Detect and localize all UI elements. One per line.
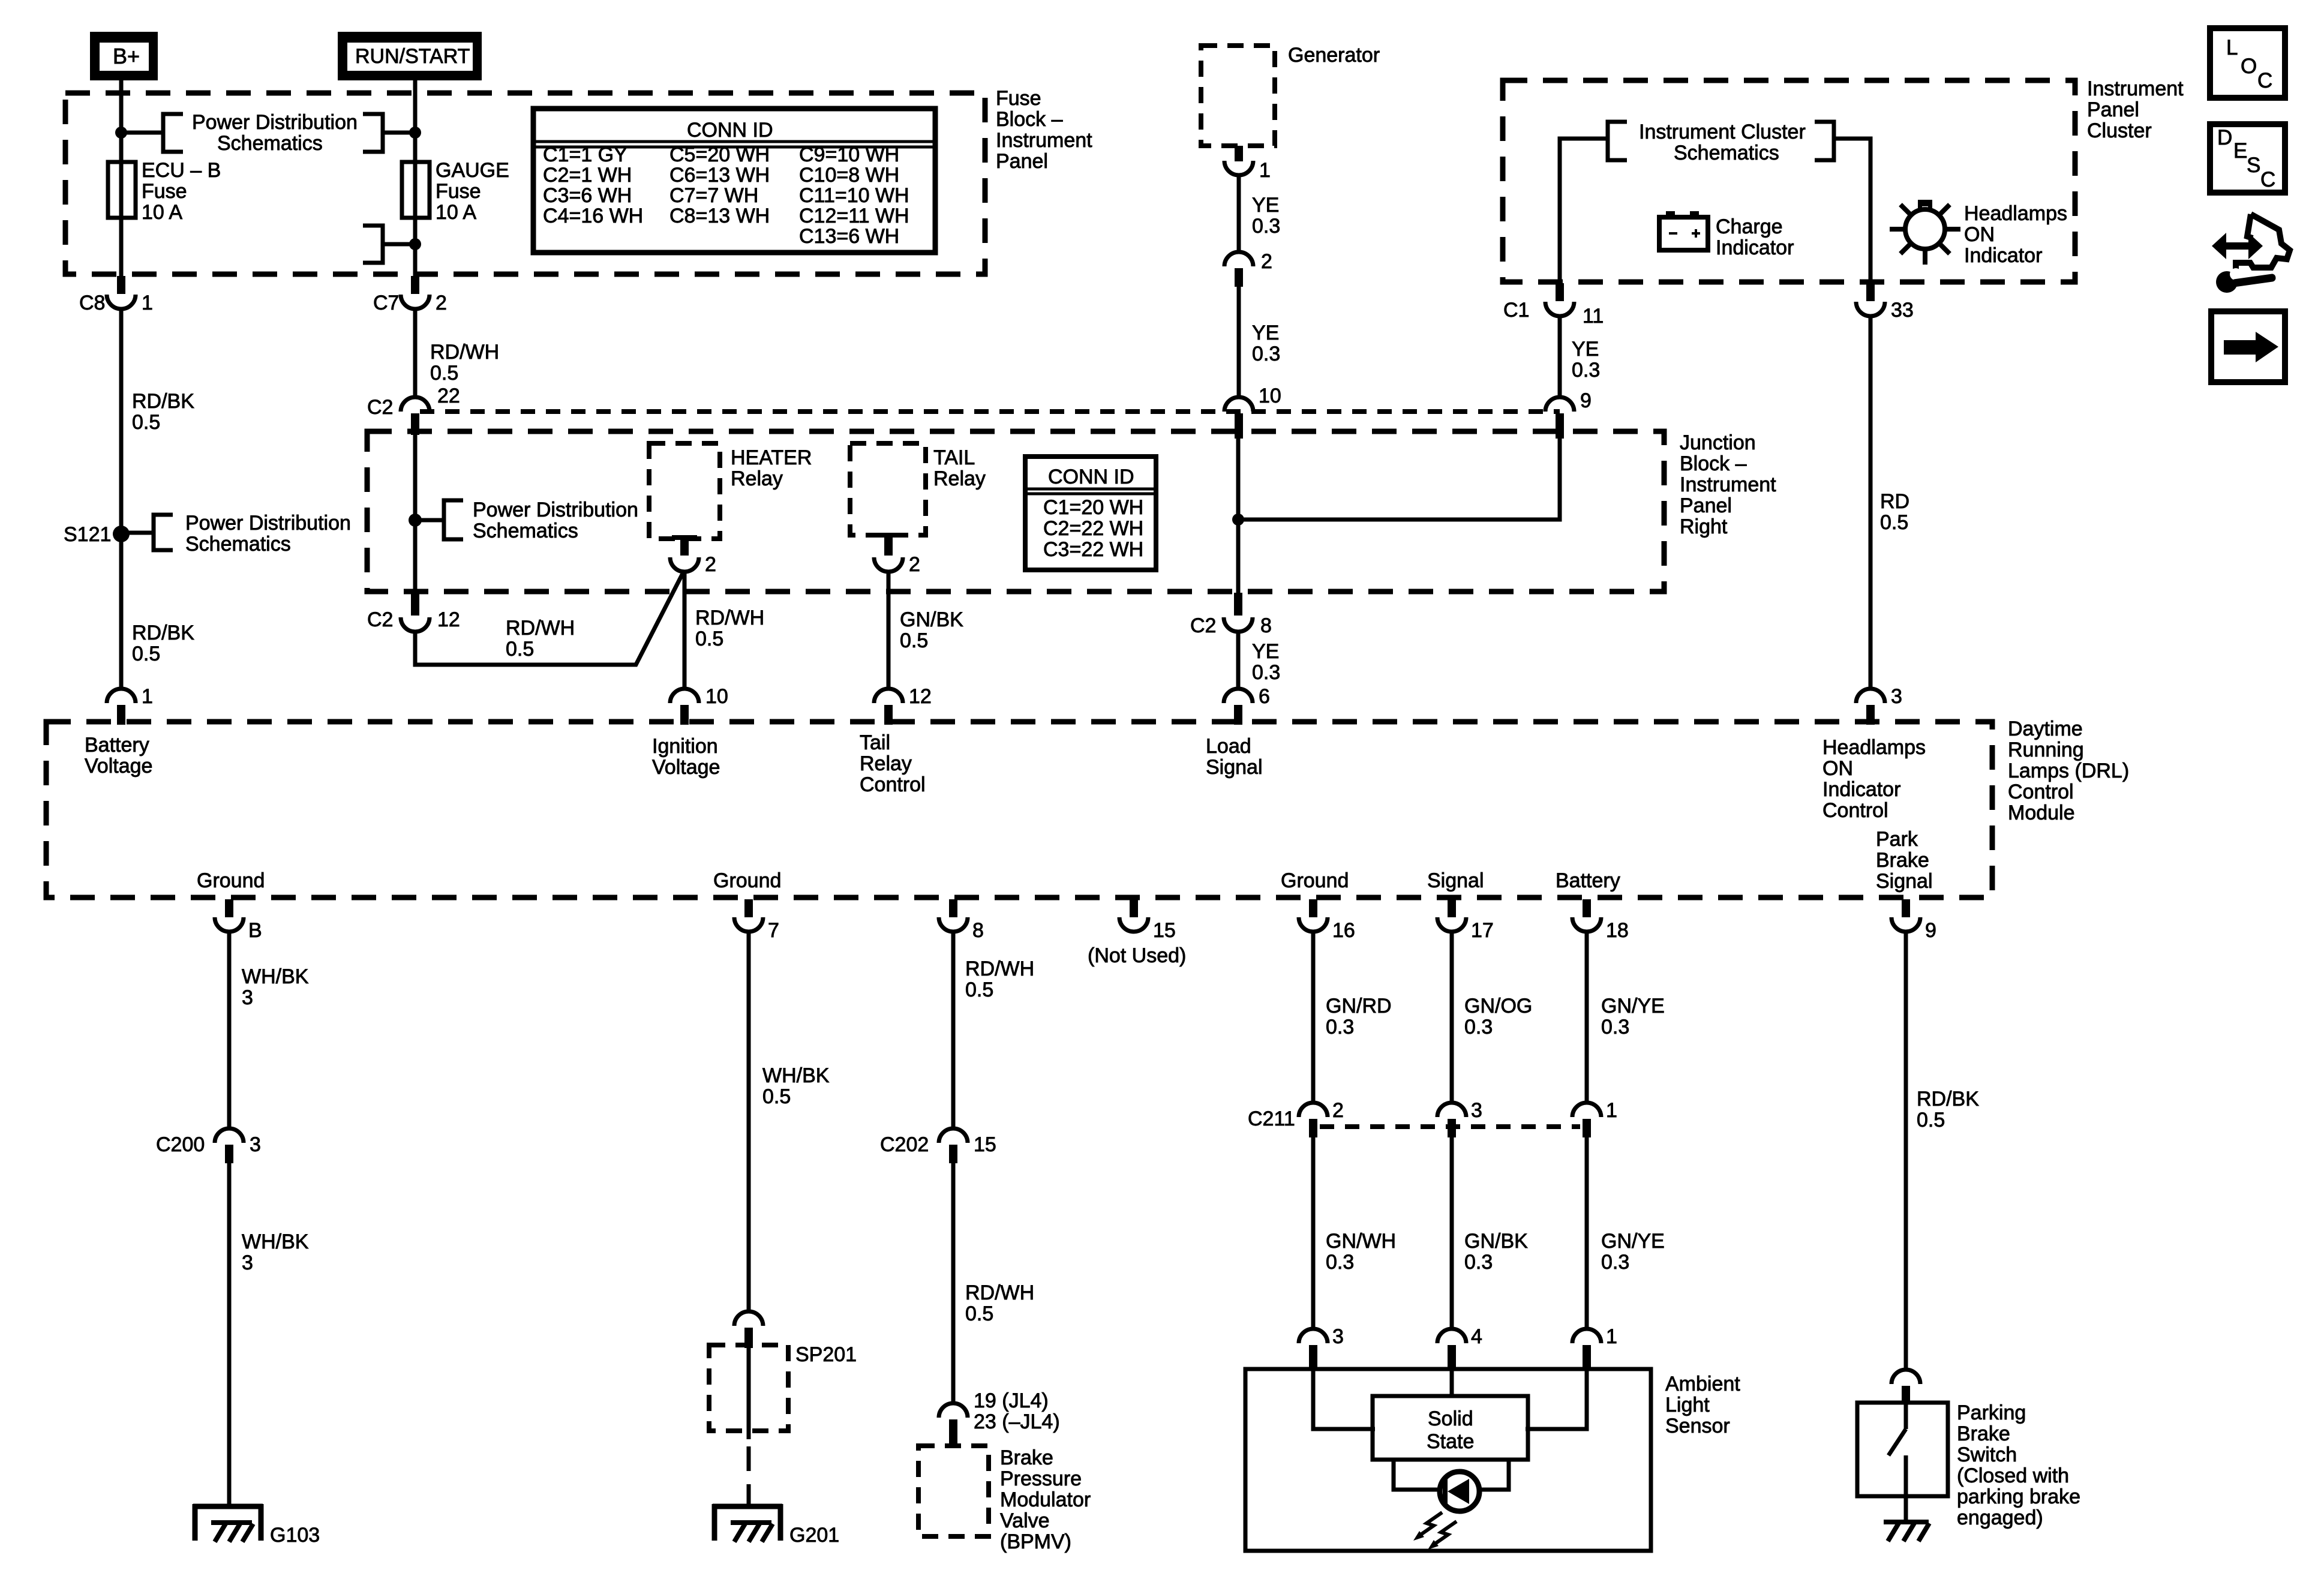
node junction dot S in block [409, 514, 422, 527]
ground G103 [193, 1504, 320, 1547]
svg-text:Instrument: Instrument [1680, 473, 1776, 496]
svg-text:Schematics: Schematics [217, 132, 323, 155]
svg-text:WH/BK: WH/BK [242, 1230, 309, 1253]
label Instrument Panel Cluster [2087, 77, 2184, 142]
label RD/BK 0.5 upper [132, 390, 194, 434]
svg-text:Brake: Brake [1957, 1422, 2010, 1445]
svg-text:C3=22 WH: C3=22 WH [1043, 538, 1143, 561]
tail relay pin 2 connector [874, 533, 920, 576]
svg-text:C7: C7 [373, 292, 399, 314]
wire RUN/START to C7 [413, 80, 418, 280]
svg-text:C5=20 WH: C5=20 WH [669, 143, 770, 166]
table CONN ID fuse block [533, 109, 935, 253]
svg-text:Sensor: Sensor [1665, 1415, 1730, 1437]
svg-text:O: O [2241, 55, 2257, 78]
label Headlamps ON Indicator Control [1822, 736, 1926, 822]
heater relay pin 2 connector [670, 535, 716, 576]
node RUN/START [338, 32, 482, 80]
wire dotted connector line [420, 409, 1560, 414]
node S121 splice [64, 523, 130, 546]
wire C211-1 to sensor 1 [1585, 1137, 1589, 1329]
svg-text:GN/WH: GN/WH [1326, 1230, 1396, 1253]
svg-text:WH/BK: WH/BK [242, 965, 309, 988]
wire connector 2 to connector 10 [1237, 287, 1241, 398]
svg-text:0.3: 0.3 [1464, 1251, 1493, 1274]
svg-text:C2=1 WH: C2=1 WH [543, 164, 632, 187]
connector pin 18 [1572, 899, 1629, 942]
icon arrow box [2211, 311, 2285, 382]
svg-text:(Not Used): (Not Used) [1088, 944, 1186, 967]
svg-text:Generator: Generator [1288, 44, 1380, 67]
wire C8 down left column [119, 309, 124, 689]
headlamps ON indicator bulb icon [1890, 200, 1960, 265]
bracket lower to gauge wire [363, 226, 383, 263]
svg-text:GN/YE: GN/YE [1601, 995, 1665, 1017]
svg-text:3: 3 [1471, 1099, 1482, 1122]
label Parking Brake Switch [1957, 1401, 2080, 1529]
svg-text:Fuse: Fuse [996, 87, 1041, 110]
svg-text:C202: C202 [880, 1133, 929, 1156]
label Battery Voltage [85, 734, 152, 778]
label RD/WH 0.5 ignition wire [695, 607, 764, 650]
svg-text:9: 9 [1580, 389, 1592, 412]
label GN/YE 0.3 upper [1601, 995, 1665, 1038]
svg-text:(Closed with: (Closed with [1957, 1464, 2069, 1487]
wire C202 to BPMV connector [951, 1163, 956, 1404]
splice SP201 dashed box [709, 1345, 788, 1431]
svg-text:7: 7 [768, 919, 779, 942]
svg-text:(BPMV): (BPMV) [1000, 1530, 1071, 1553]
svg-text:YE: YE [1252, 194, 1279, 217]
svg-text:Battery: Battery [85, 734, 149, 757]
svg-text:1: 1 [1606, 1325, 1617, 1348]
relay TAIL dashed box [850, 443, 926, 535]
svg-text:Indicator: Indicator [1716, 236, 1794, 259]
connector pin 10 ignition [670, 685, 728, 725]
label RD/WH 0.5 lower bottom [965, 1281, 1034, 1325]
svg-text:C1: C1 [1503, 299, 1529, 322]
svg-text:18: 18 [1606, 919, 1629, 942]
svg-text:Valve: Valve [1000, 1509, 1050, 1532]
svg-text:Brake: Brake [1000, 1446, 1053, 1469]
svg-text:0.5: 0.5 [965, 978, 993, 1001]
wire junction block vertical x692 [413, 433, 418, 595]
svg-text:RD/BK: RD/BK [132, 390, 194, 413]
instrument panel cluster dashed box [1503, 80, 2075, 282]
svg-text:SP201: SP201 [795, 1343, 857, 1366]
svg-text:9: 9 [1925, 919, 1936, 942]
connector pin 16 [1299, 899, 1355, 942]
svg-text:Control: Control [860, 773, 926, 796]
label Power Distribution Schematics block [473, 499, 638, 542]
svg-text:C8: C8 [79, 292, 105, 314]
svg-text:0.5: 0.5 [695, 628, 723, 650]
svg-text:Block –: Block – [1680, 452, 1747, 475]
svg-text:RD: RD [1880, 490, 1909, 513]
svg-text:Headlamps: Headlamps [1964, 202, 2067, 225]
svg-text:Switch: Switch [1957, 1443, 2017, 1466]
svg-text:Right: Right [1680, 515, 1728, 538]
label RD/WH 0.5 bent wire [506, 617, 575, 661]
connector sensor pin 3 [1299, 1325, 1344, 1369]
label GAUGE Fuse 10 A [436, 159, 509, 224]
connector sensor pin 1 [1572, 1325, 1617, 1369]
svg-text:Control: Control [1822, 799, 1888, 822]
svg-text:Brake: Brake [1876, 849, 1929, 872]
icon vehicle head with arrow [2212, 214, 2290, 271]
svg-text:C2=22 WH: C2=22 WH [1043, 517, 1143, 540]
wire 16 to C211-2 [1311, 932, 1316, 1103]
svg-text:YE: YE [1252, 640, 1279, 663]
svg-text:C4=16 WH: C4=16 WH [543, 205, 643, 227]
generator dashed box [1201, 46, 1275, 146]
connector pin 9 park brake [1891, 899, 1936, 942]
connector pin 10 junction [1224, 385, 1281, 439]
svg-text:Voltage: Voltage [652, 756, 720, 779]
svg-text:0.3: 0.3 [1572, 359, 1600, 382]
svg-text:Daytime: Daytime [2008, 718, 2083, 740]
svg-text:C1=20 WH: C1=20 WH [1043, 496, 1143, 519]
label Fuse Block - Instrument Panel [996, 87, 1092, 173]
connector pin 6 load signal [1224, 685, 1270, 725]
connector C211 pin 2 [1248, 1099, 1344, 1137]
svg-text:1: 1 [1606, 1099, 1617, 1122]
node B+ [90, 32, 158, 80]
svg-text:12: 12 [437, 608, 460, 631]
label WH/BK 0.5 [762, 1064, 830, 1108]
icon wrench [2216, 268, 2276, 293]
wire C211-3 to sensor 4 [1450, 1137, 1454, 1329]
svg-text:17: 17 [1471, 919, 1494, 942]
svg-text:S: S [2247, 154, 2260, 177]
svg-text:10 A: 10 A [142, 201, 182, 224]
svg-text:2: 2 [1261, 250, 1272, 273]
connector C2 pin 12 [367, 593, 460, 632]
label Solid State [1427, 1407, 1474, 1453]
node junction dot load [1232, 514, 1244, 526]
svg-text:0.3: 0.3 [1464, 1016, 1493, 1038]
icon LOC box [2210, 28, 2285, 98]
bracket S121 Power Distribution [154, 515, 173, 550]
svg-text:Control: Control [2008, 781, 2074, 803]
label Park Brake Signal [1876, 828, 1933, 893]
svg-text:1: 1 [1259, 159, 1271, 182]
label GN/RD 0.3 [1326, 995, 1392, 1038]
svg-text:Fuse: Fuse [142, 180, 187, 203]
connector C1 pin 11 [1503, 283, 1604, 328]
bracket Instrument Cluster Schematics right [1815, 122, 1834, 160]
wire generator to connector 2 [1237, 175, 1241, 252]
svg-text:15: 15 [1153, 919, 1176, 942]
solid state box [1373, 1396, 1528, 1460]
icon DESC box [2210, 124, 2285, 193]
wire to bracket in block [415, 518, 444, 523]
svg-text:0.5: 0.5 [762, 1085, 791, 1108]
svg-text:G201: G201 [789, 1524, 839, 1547]
svg-text:RUN/START: RUN/START [355, 45, 470, 68]
svg-text:Ground: Ground [197, 869, 265, 892]
svg-text:Junction: Junction [1680, 431, 1756, 454]
svg-text:2: 2 [705, 553, 716, 576]
svg-text:HEATER: HEATER [731, 446, 812, 469]
generator pin 1 connector [1224, 146, 1271, 182]
svg-text:ON: ON [1822, 757, 1853, 780]
svg-text:0.5: 0.5 [132, 643, 160, 665]
svg-text:State: State [1427, 1430, 1474, 1453]
label YE 0.3 cluster [1572, 338, 1600, 382]
svg-text:8: 8 [1260, 614, 1272, 637]
svg-text:GN/YE: GN/YE [1601, 1230, 1665, 1253]
ground park brake [1884, 1522, 1929, 1541]
label Ignition Voltage [652, 735, 720, 779]
svg-text:Module: Module [2008, 801, 2075, 824]
connector sensor pin 4 [1437, 1325, 1482, 1369]
wire sensor 1 internal [1526, 1369, 1587, 1429]
wire 33 to connector 3 [1869, 316, 1873, 689]
svg-text:Schematics: Schematics [1674, 142, 1779, 164]
park brake switch S1 box [1857, 1403, 1948, 1496]
svg-text:C13=6 WH: C13=6 WH [799, 225, 899, 248]
label GN/BK 0.5 [900, 608, 963, 652]
wire C200 to G103 [227, 1163, 232, 1506]
svg-text:Fuse: Fuse [436, 180, 481, 203]
svg-text:0.5: 0.5 [506, 638, 534, 661]
svg-text:C11=10 WH: C11=10 WH [799, 184, 909, 207]
wire C211-2 to sensor 3 [1311, 1137, 1316, 1329]
svg-text:C: C [2257, 69, 2272, 92]
svg-text:22: 22 [437, 385, 460, 407]
svg-text:Signal: Signal [1876, 870, 1933, 893]
svg-text:YE: YE [1572, 338, 1599, 361]
label Daytime Running Lamps DRL Control Module [2008, 718, 2129, 824]
svg-text:Signal: Signal [1427, 869, 1484, 892]
svg-text:CONN ID: CONN ID [687, 119, 773, 142]
label GN/YE 0.3 lower [1601, 1230, 1665, 1274]
svg-text:RD/WH: RD/WH [965, 1281, 1034, 1304]
table CONN ID junction block [1025, 457, 1156, 570]
svg-text:Ignition: Ignition [652, 735, 718, 758]
svg-text:B+: B+ [113, 44, 140, 68]
label RD/BK 0.5 lower [132, 622, 194, 665]
svg-text:C2: C2 [367, 608, 393, 631]
node junction dot gauge lower [409, 238, 421, 250]
connector C2 pin 22 [367, 385, 460, 435]
svg-text:Panel: Panel [1680, 494, 1732, 517]
label Brake Pressure Modulator Valve BPMV [1000, 1446, 1091, 1553]
svg-text:10: 10 [1259, 385, 1281, 407]
label Instrument Cluster Schematics [1639, 121, 1806, 164]
charge indicator battery icon [1659, 211, 1708, 250]
wire C2-12 bent to heater pin [415, 571, 684, 665]
photodiode bracket [1394, 1460, 1440, 1490]
svg-text:GN/BK: GN/BK [1464, 1230, 1528, 1253]
label YE 0.3 top [1252, 194, 1280, 238]
wire C2-8 to connector 6 [1236, 632, 1241, 689]
svg-text:C8=13 WH: C8=13 WH [669, 205, 770, 227]
svg-text:0.3: 0.3 [1326, 1251, 1354, 1274]
label YE 0.3 mid [1252, 322, 1280, 365]
connector pin 2 generator [1224, 250, 1272, 287]
svg-text:D: D [2217, 126, 2232, 149]
svg-text:0.3: 0.3 [1252, 343, 1280, 365]
svg-text:G103: G103 [270, 1524, 320, 1547]
wire cluster left branch [1560, 139, 1608, 284]
svg-text:RD/WH: RD/WH [965, 957, 1034, 980]
photodiode D1 [1440, 1472, 1479, 1511]
wire B to C200 [227, 932, 232, 1129]
wire RD/WH C7 to C2-22 [413, 309, 418, 398]
relay HEATER dashed box [649, 443, 720, 539]
svg-text:Parking: Parking [1957, 1401, 2026, 1424]
svg-text:Instrument: Instrument [2087, 77, 2184, 100]
svg-text:0.5: 0.5 [430, 362, 458, 385]
svg-text:GAUGE: GAUGE [436, 159, 509, 182]
wire junction to connector 9 [1238, 436, 1560, 520]
svg-text:Power Distribution: Power Distribution [185, 512, 351, 535]
svg-text:3: 3 [250, 1133, 261, 1156]
label ECU-B Fuse 10 A [142, 159, 221, 224]
svg-text:3: 3 [1891, 685, 1902, 708]
svg-text:Tail: Tail [860, 731, 890, 754]
svg-text:ECU – B: ECU – B [142, 159, 221, 182]
label RD/BK 0.5 park [1917, 1088, 1979, 1131]
label RD/WH 0.5 [430, 341, 499, 385]
wire sensor 4 internal [1450, 1369, 1454, 1397]
svg-text:19 (JL4): 19 (JL4) [974, 1389, 1049, 1412]
wire through SP201 [747, 1348, 751, 1439]
svg-text:C9=10 WH: C9=10 WH [799, 143, 899, 166]
svg-text:0.3: 0.3 [1252, 661, 1280, 684]
svg-text:C: C [2260, 168, 2275, 191]
svg-text:E: E [2233, 139, 2247, 163]
connector C211 pin 3 [1437, 1099, 1482, 1137]
svg-text:Relay: Relay [731, 467, 783, 490]
svg-text:0.5: 0.5 [900, 629, 928, 652]
svg-text:Headlamps: Headlamps [1822, 736, 1926, 759]
svg-text:15: 15 [974, 1133, 996, 1156]
label Headlamps ON Indicator [1964, 202, 2067, 267]
svg-text:4: 4 [1471, 1325, 1482, 1348]
svg-text:Running: Running [2008, 739, 2084, 761]
connector C200 pin 3 [156, 1128, 261, 1163]
svg-text:Instrument: Instrument [996, 129, 1092, 152]
svg-text:Light: Light [1665, 1394, 1710, 1416]
wire B+ to C8 [119, 80, 124, 280]
svg-text:Solid: Solid [1428, 1407, 1473, 1430]
connector pin 8 [939, 899, 984, 942]
svg-text:C1=1 GY: C1=1 GY [543, 143, 627, 166]
label GN/BK 0.3 [1464, 1230, 1528, 1274]
connector pin 19/23 BPMV [939, 1389, 1060, 1446]
svg-text:2: 2 [909, 553, 920, 576]
svg-text:S121: S121 [64, 523, 111, 546]
label Tail Relay Control [860, 731, 926, 796]
splice SP201 connector [734, 1311, 857, 1366]
svg-text:16: 16 [1332, 919, 1355, 942]
svg-text:Panel: Panel [2087, 98, 2139, 121]
wire load signal vertical [1236, 433, 1241, 595]
svg-text:0.5: 0.5 [1880, 511, 1908, 534]
wire heater pin to connector 10 [683, 572, 687, 689]
svg-text:Panel: Panel [996, 150, 1048, 173]
svg-text:Schematics: Schematics [473, 520, 578, 542]
svg-text:3: 3 [242, 1251, 253, 1274]
label WH/BK 3 lower [242, 1230, 309, 1274]
connector pin B ground [215, 899, 262, 942]
node S110 junction dot left [115, 127, 127, 139]
svg-text:Schematics: Schematics [185, 533, 291, 556]
connector pin 33 [1856, 283, 1914, 322]
svg-text:parking brake: parking brake [1957, 1485, 2080, 1508]
svg-text:C200: C200 [156, 1133, 205, 1156]
svg-text:Charge: Charge [1716, 215, 1783, 238]
svg-text:Cluster: Cluster [2087, 119, 2152, 142]
svg-text:0.5: 0.5 [1917, 1109, 1945, 1131]
svg-text:0.3: 0.3 [1326, 1016, 1354, 1038]
svg-text:Instrument Cluster: Instrument Cluster [1639, 121, 1806, 143]
connector C2 pin 8 [1190, 593, 1272, 637]
ambient light sensor box [1245, 1369, 1651, 1551]
svg-text:3: 3 [1332, 1325, 1344, 1348]
junction block dashed box [367, 431, 1664, 592]
svg-text:C2: C2 [1190, 614, 1216, 637]
svg-text:0.3: 0.3 [1601, 1251, 1629, 1274]
label RD/WH 0.5 upper bottom [965, 957, 1034, 1001]
svg-text:C6=13 WH: C6=13 WH [669, 164, 770, 187]
connector pin 1 battery voltage [107, 685, 153, 725]
svg-text:GN/RD: GN/RD [1326, 995, 1392, 1017]
svg-text:GN/OG: GN/OG [1464, 995, 1532, 1017]
label Power Distribution Schematics S121 [185, 512, 351, 556]
svg-text:Ground: Ground [713, 869, 781, 892]
svg-text:11: 11 [1583, 305, 1604, 328]
fuse GAUGE F2 [402, 162, 430, 218]
label Junction Block - Instrument Panel Right [1680, 431, 1776, 538]
connector pin 7 ground [734, 899, 779, 942]
svg-text:TAIL: TAIL [933, 446, 975, 469]
photodiode light arrows [1413, 1512, 1457, 1550]
BPMV dashed box [918, 1446, 989, 1536]
wire tail pin to connector 12 [887, 572, 891, 689]
svg-text:C211: C211 [1248, 1107, 1295, 1130]
connector park brake top [1891, 1370, 1920, 1403]
DRL control module dashed box [46, 722, 1992, 897]
svg-text:Relay: Relay [933, 467, 986, 490]
wire 18 to C211-1 [1585, 932, 1589, 1103]
svg-text:23 (–JL4): 23 (–JL4) [974, 1410, 1060, 1433]
label Ambient Light Sensor [1665, 1373, 1740, 1437]
svg-text:10: 10 [705, 685, 728, 708]
svg-text:C12=11 WH: C12=11 WH [799, 205, 909, 227]
svg-text:0.5: 0.5 [965, 1302, 993, 1325]
label WH/BK 3 upper [242, 965, 309, 1009]
wire sensor 3 internal [1313, 1369, 1375, 1429]
label YE 0.3 load [1252, 640, 1280, 684]
svg-text:33: 33 [1891, 299, 1914, 322]
svg-text:C3=6 WH: C3=6 WH [543, 184, 632, 207]
svg-text:Ground: Ground [1281, 869, 1349, 892]
svg-text:Modulator: Modulator [1000, 1488, 1091, 1511]
svg-text:GN/BK: GN/BK [900, 608, 963, 631]
connector C202 pin 15 [880, 1128, 996, 1163]
wire cluster right branch [1834, 139, 1870, 284]
fuse ECU-B F1 [108, 162, 136, 218]
wire S121 to bracket [121, 531, 154, 535]
connector C211 pin 1 [1572, 1099, 1617, 1137]
connector pin 17 [1437, 899, 1494, 942]
svg-text:engaged): engaged) [1957, 1506, 2043, 1529]
wire dotted C211 [1320, 1124, 1580, 1129]
